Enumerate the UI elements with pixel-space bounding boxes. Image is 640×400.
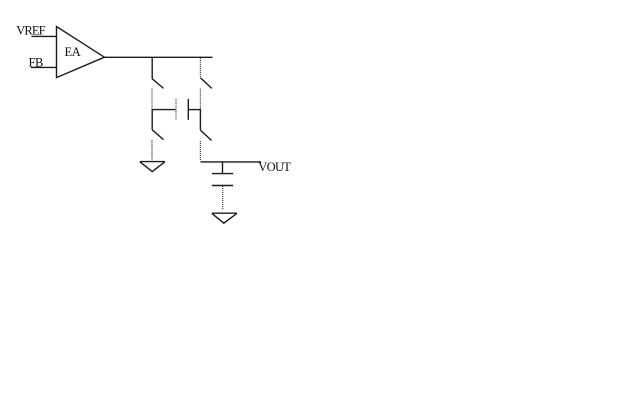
wire VREF input xyxy=(32,35,57,37)
switch S3 blade xyxy=(200,78,211,89)
wire left branch drop xyxy=(151,57,153,79)
wire S2 lower terminal (dotted) xyxy=(151,140,153,160)
wire S4 lower terminal (dotted) xyxy=(199,141,201,161)
capacitor C1 left plate (dotted) xyxy=(175,99,177,120)
capacitor C2 bottom stub (dotted) xyxy=(222,186,224,210)
switch S2 blade xyxy=(152,130,163,140)
wire EA output bus xyxy=(104,56,212,58)
capacitor C1 right plate xyxy=(187,99,189,120)
switch S4 blade xyxy=(200,130,211,140)
capacitor C2 bottom plate xyxy=(212,185,233,187)
ground left xyxy=(140,162,165,172)
wire node B middle xyxy=(199,109,201,131)
op-amp EA triangle xyxy=(57,27,105,78)
wire right branch drop (dotted) xyxy=(199,58,201,78)
switch S1 blade xyxy=(152,79,163,89)
wire FB input xyxy=(31,66,57,68)
svg-text:VREF: VREF xyxy=(16,23,45,37)
wire left branch middle xyxy=(151,109,153,130)
wire S1 lower terminal (dotted) xyxy=(151,89,153,109)
ground right xyxy=(212,213,237,223)
wire output node xyxy=(200,161,261,163)
wire node A to capacitor left xyxy=(152,109,175,111)
wire capacitor right to node B xyxy=(188,109,200,111)
wire S3 lower terminal (dotted) xyxy=(199,89,201,109)
svg-text:VOUT: VOUT xyxy=(258,160,291,174)
capacitor C2 top plate xyxy=(212,173,233,175)
svg-text:EA: EA xyxy=(65,45,81,59)
capacitor C2 top stub xyxy=(222,162,224,173)
